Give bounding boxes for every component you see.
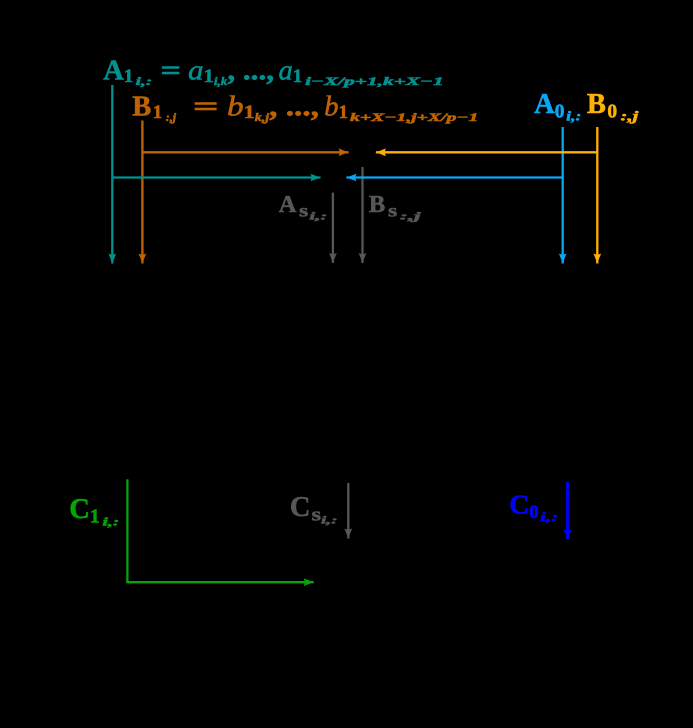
wire dark orange vertical B1 down: [141, 121, 143, 264]
wire gold horizontal B0 left: [376, 151, 597, 153]
svg-text:=: =: [161, 55, 182, 86]
wire gold vertical B0 down: [596, 127, 598, 264]
svg-text:=: =: [193, 91, 219, 122]
wire dark orange horizontal B1 right: [142, 151, 348, 153]
svg-text:b1k,j, ...,: b1k,j, ...,: [227, 91, 319, 124]
wire sky blue horizontal A0 left: [346, 176, 562, 178]
wire gray Cs down: [347, 483, 349, 539]
wire teal vertical A1 down: [111, 85, 113, 264]
wire green C1 elbow: [127, 479, 313, 582]
wire gray Bs down: [361, 167, 363, 263]
svg-text:a1i,k, ...,: a1i,k, ...,: [188, 55, 274, 88]
wire gray As down: [332, 193, 334, 263]
wire blue C0 down: [566, 482, 569, 539]
wire teal horizontal A1 right: [112, 176, 320, 178]
wire sky blue vertical A0 down: [562, 127, 564, 264]
